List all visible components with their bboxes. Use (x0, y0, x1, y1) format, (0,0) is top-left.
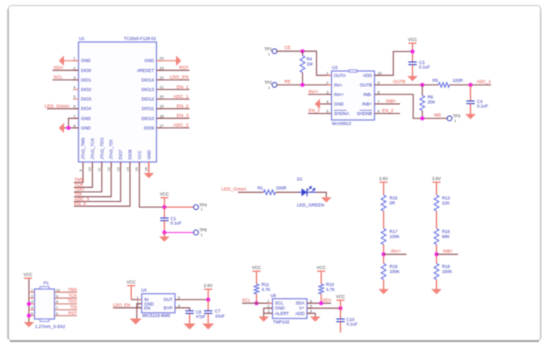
svg-text:8: 8 (56, 300, 58, 304)
resistor R15 (381, 195, 386, 211)
svg-text:EN_3: EN_3 (177, 113, 189, 118)
svg-text:24: 24 (160, 57, 164, 61)
label C8 47pF (196, 309, 206, 319)
wire U1 pin23 (157, 69, 190, 71)
U4 pin numbers (137, 296, 180, 308)
svg-text:RST: RST (68, 310, 77, 315)
wire U1 pin20 (157, 98, 190, 100)
svg-text:5: 5 (73, 95, 75, 99)
svg-text:330R: 330R (276, 186, 286, 191)
svg-text:MIC5219-BM5: MIC5219-BM5 (142, 313, 171, 318)
net label RST at P1 (68, 310, 77, 315)
wire to C7 (207, 300, 209, 311)
svg-text:INB+: INB+ (362, 101, 372, 106)
U1 pin names (81, 58, 155, 130)
wire U3 pin6 (375, 113, 401, 115)
ground below C4 (465, 114, 475, 119)
U1 pin stubs (73, 61, 162, 168)
power VCC at U6 V+ (336, 294, 345, 301)
svg-text:DIO0: DIO0 (81, 68, 92, 73)
U4 pin stubs (137, 300, 179, 308)
resistor R16 (434, 229, 439, 245)
svg-text:2.6V: 2.6V (379, 176, 388, 181)
ground at U1 pin1 (59, 56, 64, 66)
capacitor C1 (160, 218, 168, 221)
svg-text:8: 8 (378, 89, 380, 94)
wire U1 pin9 to TMS (74, 162, 83, 182)
svg-text:EN_2: EN_2 (177, 104, 189, 109)
resistor R19 (381, 264, 386, 280)
U6 pin numbers (268, 299, 313, 313)
svg-text:R5: R5 (433, 78, 439, 83)
P1 left pin wires (29, 292, 35, 315)
svg-text:OUTA: OUTA (334, 73, 346, 78)
ground below U1 pin16 (144, 173, 154, 178)
net label EN_4 (74, 201, 86, 206)
svg-text:100K: 100K (390, 234, 400, 239)
wire SCL to U6 (242, 302, 273, 304)
ground below C7 (202, 324, 214, 330)
net label SCL (54, 75, 64, 80)
connector P1 body (35, 287, 55, 322)
svg-text:4: 4 (73, 86, 75, 90)
regulator U4 body (142, 294, 175, 313)
svg-text:DIO4: DIO4 (81, 106, 92, 111)
svg-text:13: 13 (116, 167, 120, 171)
ground below U6 ADD (310, 317, 320, 322)
wire U1 pin14 to EN_4 (74, 162, 130, 206)
power VCC at R11 (252, 265, 261, 272)
svg-text:9: 9 (378, 80, 380, 85)
svg-text:CE: CE (285, 45, 291, 50)
svg-text:23: 23 (160, 66, 164, 70)
wire right divider (436, 183, 438, 289)
svg-text:TP1: TP1 (264, 46, 272, 51)
ground at U1 pin8 (59, 123, 64, 133)
label C7 10uF (215, 309, 225, 319)
wire U1 pin16 GND (148, 162, 150, 173)
svg-text:U3: U3 (332, 65, 338, 70)
svg-text:5: 5 (31, 312, 33, 316)
wire P1 pin7 (55, 309, 78, 311)
resistor R11 body (254, 272, 259, 303)
label C1 0.1uF (171, 216, 182, 226)
test point TP4 (194, 202, 208, 211)
net label EN_1 (177, 84, 189, 89)
ground below R18 (431, 289, 441, 294)
svg-text:68K: 68K (442, 234, 450, 239)
svg-text:INA+: INA+ (309, 89, 320, 94)
label 330R (276, 186, 286, 191)
label 100R (453, 78, 463, 83)
P1 pin number 7 (56, 306, 58, 310)
wire C7 to ground (207, 313, 209, 323)
label R1 (258, 186, 264, 191)
svg-text:TP2: TP2 (264, 80, 272, 85)
svg-text:DIO8: DIO8 (128, 149, 133, 160)
junction V+/VCC (339, 306, 343, 310)
svg-text:EN_4: EN_4 (74, 201, 86, 206)
svg-text:21: 21 (160, 86, 164, 90)
svg-text:3: 3 (326, 89, 328, 94)
wire U1 pin21 (157, 89, 190, 91)
svg-text:10: 10 (88, 167, 92, 171)
capacitor C8 (185, 311, 193, 314)
svg-text:1: 1 (268, 86, 270, 90)
svg-text:VCC: VCC (160, 192, 169, 197)
svg-text:VCC: VCC (336, 294, 345, 299)
label D1 (297, 177, 303, 182)
net label SCL at U6 (242, 298, 251, 303)
IC U1 TC26x0-F128-02 body (79, 42, 157, 162)
wire U3 pin3 (308, 93, 332, 95)
junction OUTB/R6 (420, 83, 424, 87)
wire LED_Green to R1 (238, 191, 264, 193)
svg-text:LED_Green: LED_Green (45, 104, 70, 109)
svg-text:2: 2 (326, 80, 328, 85)
wire P1 pin9 (55, 297, 78, 299)
U3 designator (332, 65, 338, 70)
net label TMS (74, 177, 84, 182)
svg-text:LED_Green: LED_Green (222, 187, 247, 192)
U3 part MAX9913 (332, 121, 352, 126)
svg-text:0.1uF: 0.1uF (347, 322, 358, 327)
svg-text:TDO: TDO (68, 299, 78, 304)
svg-text:100R: 100R (453, 78, 463, 83)
svg-text:INA-: INA- (334, 82, 343, 87)
wire C1 to TP5 node (163, 221, 165, 233)
svg-text:1: 1 (73, 57, 75, 61)
wire C4 from ADC_1 (470, 85, 472, 101)
wire U6 GND/ALERT (264, 308, 273, 316)
svg-text:14: 14 (126, 167, 130, 171)
junction VCC/C1/TP4 (162, 205, 166, 209)
wire C3 to ground (412, 65, 414, 76)
svg-text:22: 22 (160, 76, 164, 80)
label R17 100K (390, 229, 400, 239)
resistor R1 (264, 190, 276, 195)
ground at U3 pin4 (315, 99, 320, 109)
wire U1 pin22 (157, 79, 190, 81)
wire junction to C1 (163, 207, 165, 218)
power VCC at R10 (317, 265, 326, 272)
wire R5 to ADC_1 (450, 84, 492, 86)
svg-text:8: 8 (73, 124, 75, 128)
svg-text:11: 11 (98, 168, 102, 172)
U1 part value TC26x0-F128-02 (124, 36, 157, 41)
svg-text:RST: RST (179, 65, 189, 70)
svg-text:U6: U6 (271, 293, 277, 298)
svg-text:nRESET: nRESET (137, 68, 154, 73)
wire U1 pin6 (47, 108, 79, 110)
svg-text:INB+: INB+ (443, 249, 454, 254)
svg-text:7: 7 (378, 99, 380, 104)
svg-text:TP5: TP5 (199, 228, 207, 233)
svg-text:1M: 1M (307, 61, 313, 66)
net label TCK (74, 182, 84, 187)
wire INA+ stub (384, 253, 407, 255)
net label WE (434, 113, 441, 118)
wire U3 pin5 (308, 113, 332, 115)
svg-text:TP3: TP3 (453, 114, 461, 119)
ground below P1 (24, 322, 34, 327)
P1 left pin numbers (31, 288, 33, 315)
wire U3 pin10 VDD (375, 52, 413, 76)
wire P1 vertical bus (28, 292, 30, 322)
net label LED_Green at R1 (222, 187, 247, 192)
P1 pin number 9 (56, 294, 58, 298)
label R19 100K (390, 264, 400, 274)
diode D1 LED (298, 186, 316, 196)
wire C1 node to ground (163, 233, 165, 237)
net label EN_2 at U3 pin6 (382, 108, 394, 113)
U1 bottom pin numbers (79, 167, 149, 171)
svg-text:JTAG_TDO: JTAG_TDO (99, 137, 104, 160)
net label INA+ divider (391, 249, 402, 254)
wire U4 OUT to 2.6V (175, 299, 208, 301)
svg-text:1.27mm_S-5X2: 1.27mm_S-5X2 (35, 324, 66, 329)
wire P1 pin6 (55, 315, 78, 317)
wire U1 pin11 to TDO (74, 162, 102, 192)
svg-text:INA+: INA+ (391, 249, 402, 254)
junction CE/R4 (301, 49, 305, 53)
svg-text:SDA: SDA (54, 65, 65, 70)
svg-text:TMS: TMS (68, 287, 77, 292)
svg-text:19: 19 (160, 105, 164, 109)
svg-text:LDO_EN: LDO_EN (170, 75, 189, 80)
label C10 0.1uF (347, 317, 358, 327)
svg-text:0.1uF: 0.1uF (477, 104, 488, 109)
label R5 (433, 78, 439, 83)
svg-text:17: 17 (160, 124, 164, 128)
net label TCK at P1 (68, 293, 77, 298)
net label TDI at P1 (70, 305, 77, 310)
label C4 0.1uF (477, 99, 488, 109)
net label ADC_2 (173, 123, 189, 128)
test point TP2 (264, 80, 277, 90)
svg-text:0.1uF: 0.1uF (419, 65, 430, 70)
net label RST (179, 65, 189, 70)
ground below C3 (407, 76, 417, 81)
junction RE/R4 (301, 83, 305, 87)
label R11 4.7K (262, 282, 271, 292)
wire U1 pin7 to pin8 (69, 118, 79, 128)
U1 bottom pin names (81, 137, 152, 160)
net label SDA at U6 (323, 298, 332, 303)
svg-text:TCK: TCK (68, 293, 77, 298)
net label RE (285, 79, 291, 84)
net label INB+ at U3 pin7 (386, 98, 397, 103)
net label OUTB (393, 79, 406, 84)
svg-text:JTAG_TDI: JTAG_TDI (109, 140, 114, 160)
svg-text:10uF: 10uF (215, 313, 225, 318)
P1 footprint label 1.27mm_S-5X2 (35, 324, 66, 329)
svg-text:GND: GND (81, 116, 91, 121)
svg-text:D1: D1 (297, 177, 303, 182)
svg-text:6: 6 (378, 109, 380, 114)
wire P1 pin8 (55, 303, 78, 305)
label LED_GREEN (297, 203, 324, 208)
svg-text:GND: GND (81, 58, 91, 63)
svg-text:JTAG_TCK: JTAG_TCK (90, 138, 95, 160)
wire U3 pin7 (375, 103, 401, 105)
net label LDO_EN at U4 (113, 302, 130, 307)
ground below D1 (321, 197, 331, 202)
net label INB+ divider (443, 249, 454, 254)
power 2.6V at U4 out (204, 283, 213, 290)
wire U1 pin1 GND (64, 60, 79, 62)
label R4 1M (307, 56, 313, 66)
label R13 22K (442, 195, 451, 205)
svg-text:VCC: VCC (252, 265, 261, 270)
svg-text:ADD: ADD (295, 311, 304, 316)
svg-text:47pF: 47pF (196, 314, 206, 319)
wire LDO_EN to U4 EN (113, 307, 142, 309)
svg-text:2.6V: 2.6V (204, 283, 213, 288)
svg-text:OUTB: OUTB (360, 82, 372, 87)
svg-text:TDI: TDI (70, 305, 77, 310)
svg-text:EN_2: EN_2 (382, 108, 394, 113)
wire C10 down (340, 322, 342, 333)
svg-text:0.1uF: 0.1uF (171, 221, 182, 226)
svg-text:INB+: INB+ (386, 98, 397, 103)
svg-text:DIO7: DIO7 (118, 149, 123, 160)
wire U6 ADD to ground (307, 313, 315, 316)
svg-text:GND: GND (81, 125, 91, 130)
label R15 0R (390, 195, 399, 205)
U6 pin names (275, 301, 305, 316)
net label TDI (74, 192, 81, 197)
svg-text:1: 1 (201, 233, 203, 237)
net label LED_Green (45, 104, 70, 109)
wire 2.6V down (207, 290, 209, 300)
label R16 68K (442, 229, 451, 239)
svg-text:9: 9 (56, 294, 58, 298)
svg-text:JTAG_TMS: JTAG_TMS (81, 137, 86, 159)
svg-text:DIO3: DIO3 (81, 97, 92, 102)
svg-text:7: 7 (73, 114, 75, 118)
svg-text:SHDNB: SHDNB (357, 111, 372, 116)
wire U1 pin10 to TCK (74, 162, 92, 187)
P1 pin number 10 (56, 288, 60, 292)
svg-text:18: 18 (160, 114, 164, 118)
U1 designator label (79, 36, 85, 41)
U4 part MIC5219-BM5 (142, 313, 171, 318)
net label SDA (54, 65, 65, 70)
svg-text:VCC: VCC (408, 37, 417, 42)
svg-text:1: 1 (31, 288, 33, 292)
wire RE (277, 84, 332, 86)
wire left divider (383, 183, 385, 289)
svg-text:6: 6 (73, 105, 75, 109)
net label TDO (74, 187, 84, 192)
svg-text:MAX9913: MAX9913 (332, 121, 352, 126)
svg-text:3: 3 (31, 300, 33, 304)
ground below U4 (130, 319, 142, 325)
ground below C1 (159, 237, 169, 242)
net label ADC_1 (477, 79, 492, 84)
ground below U6 left (259, 317, 269, 322)
capacitor C10 (336, 319, 344, 322)
svg-text:DIO2: DIO2 (81, 87, 92, 92)
svg-text:LDO_EN: LDO_EN (113, 302, 130, 307)
U6 designator (271, 293, 277, 298)
net label CE (285, 45, 291, 50)
svg-text:DIO9: DIO9 (144, 125, 155, 130)
wire U1 pin18 (157, 117, 190, 119)
svg-text:WE: WE (434, 113, 441, 118)
U1 side pin numbers (73, 57, 163, 128)
svg-text:R1: R1 (258, 186, 264, 191)
svg-text:7: 7 (56, 306, 58, 310)
svg-text:BYP: BYP (164, 305, 173, 310)
wire VCC to U4 IN (131, 286, 142, 299)
svg-text:DIO1: DIO1 (81, 77, 92, 82)
wire C8 to ground (189, 313, 191, 323)
wire VCC down to C3 (412, 44, 414, 62)
net label INA+ at U3 pin3 (309, 89, 320, 94)
svg-text:100K: 100K (390, 269, 400, 274)
svg-text:ADC_1: ADC_1 (477, 79, 492, 84)
wire VCC bus P1 (28, 279, 30, 292)
junction WE/R6 (420, 116, 424, 120)
svg-text:EN_1: EN_1 (177, 84, 189, 89)
svg-text:OUTB: OUTB (393, 79, 406, 84)
wire U1 pin12 to TDI (74, 162, 111, 197)
svg-text:6: 6 (56, 312, 58, 316)
wire U1 pin15 VCC rail (139, 162, 164, 207)
net label EN_3 (177, 113, 189, 118)
svg-text:12: 12 (107, 167, 111, 171)
U4 pin names (144, 297, 173, 310)
test point TP5 (194, 228, 208, 237)
resistor R6 body (420, 85, 425, 119)
resistor R13 (434, 195, 439, 211)
wire U3 pin8 INB- to WE (375, 94, 448, 118)
net label EN_1 at U3 pin5 (309, 108, 321, 113)
svg-text:20K: 20K (428, 100, 436, 105)
power VCC at U4 (127, 279, 136, 286)
net label ADC_3 (74, 196, 89, 201)
power VCC above C3 (408, 37, 417, 44)
U3 pin stubs (327, 75, 380, 113)
ground below R19 (378, 289, 388, 294)
svg-text:20: 20 (160, 95, 164, 99)
svg-text:4.7K: 4.7K (326, 287, 335, 292)
svg-text:ALERT: ALERT (275, 311, 289, 316)
wire U3 pin4 GND (320, 103, 332, 105)
label R18 160K (442, 264, 452, 274)
svg-text:9: 9 (79, 169, 83, 171)
U6 part TMP102 (273, 320, 290, 325)
resistor R18 (434, 264, 439, 280)
capacitor C3 (408, 62, 416, 65)
svg-text:EN: EN (144, 305, 150, 310)
wire SDA (307, 302, 331, 304)
svg-text:VCC: VCC (137, 151, 142, 160)
wire U1 pin19 (157, 108, 190, 110)
junction INA+ divider (382, 252, 386, 256)
junction SCL/R11 (255, 301, 259, 305)
svg-text:VCC: VCC (127, 279, 136, 284)
net label EN_2 (177, 104, 189, 109)
junction U1 pin7/8 (67, 126, 71, 130)
svg-text:2: 2 (31, 294, 33, 298)
wire R1 to D1 (276, 191, 299, 193)
svg-text:DIO10: DIO10 (141, 116, 154, 121)
power VCC above C1 (160, 192, 169, 199)
wire VCC to V+ and C10 (340, 301, 342, 319)
